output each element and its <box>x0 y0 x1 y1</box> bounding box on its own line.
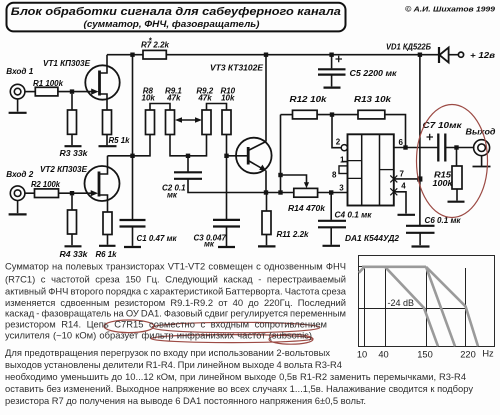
node A junction <box>70 89 74 93</box>
connector XS2 Вход 2 <box>6 170 34 201</box>
svg-text:100k: 100k <box>433 179 454 188</box>
+12 branch vertical wire <box>419 55 421 226</box>
svg-text:DA1 К544УД2: DA1 К544УД2 <box>345 234 400 243</box>
connector XS1 Вход 1 <box>6 67 34 99</box>
svg-text:Сумматор на полевых транзистор: Сумматор на полевых транзисторах VT1-VT2… <box>5 260 346 271</box>
wire node N to VT3 base <box>227 135 249 156</box>
ground (R4) <box>65 245 82 247</box>
svg-text:выходов установлены делители R: выходов установлены делители R1-R4. При … <box>5 359 342 370</box>
pin 4 X mark <box>390 188 397 195</box>
ground (R6) <box>99 245 116 247</box>
ground (output) <box>473 156 491 167</box>
svg-text:оставить без изменений. Выходн: оставить без изменений. Выходное напряже… <box>5 383 473 394</box>
svg-text:резистора R7 до получения на в: резистора R7 до получения на выводе 6 DA… <box>5 395 366 406</box>
wire node X to R8 <box>133 135 151 156</box>
transistor VT3 <box>210 64 272 174</box>
svg-text:47k: 47k <box>166 93 181 102</box>
graph gridline 150Hz <box>426 267 428 346</box>
ground (input 1) <box>9 99 27 113</box>
resistor R1 <box>33 79 64 96</box>
ground (R11) <box>258 245 276 247</box>
wire to R12 <box>281 114 293 116</box>
pin 6 wire to C7 <box>394 147 439 149</box>
wire C2 bootstrap to emitter node <box>188 179 266 193</box>
svg-text:6: 6 <box>399 138 404 147</box>
graph gridline 220Hz <box>465 268 467 347</box>
svg-text:10k: 10k <box>221 93 235 102</box>
resistor R10 <box>220 86 235 134</box>
feedback wire R13 to pin 6 <box>385 115 406 148</box>
svg-text:3: 3 <box>339 183 344 192</box>
wire R2 to VT2 gate <box>59 192 92 194</box>
svg-text:© А.И. Шихатов 1999: © А.И. Шихатов 1999 <box>405 5 496 14</box>
wire R12 to R13 <box>317 114 358 116</box>
wire bracket R9.2-R10 <box>207 104 227 111</box>
svg-text:Вход 2: Вход 2 <box>6 170 34 179</box>
svg-text:R12 10k: R12 10k <box>290 95 328 104</box>
potentiometer R14 <box>288 188 326 213</box>
junction node N <box>224 154 228 158</box>
capacitor C1 <box>120 220 178 246</box>
resistor R6 <box>96 212 118 259</box>
svg-text:2: 2 <box>336 137 341 146</box>
svg-text:7: 7 <box>400 169 405 178</box>
wire VT2 drain to node X <box>108 155 133 157</box>
junction node X / filter input <box>130 154 134 158</box>
capacitor C2 <box>162 156 202 200</box>
resistor R2 <box>31 180 61 198</box>
rail wire R7 to diode <box>166 54 439 56</box>
ground (C6) <box>412 245 430 247</box>
connector Выход <box>466 128 496 156</box>
wiper wire R14 <box>281 175 310 188</box>
svg-text:C7 10мк: C7 10мк <box>423 121 463 130</box>
ground (C5) <box>324 86 341 88</box>
wire VT3 emitter down <box>265 171 267 193</box>
svg-text:изменяется сдвоенным резисторо: изменяется сдвоенным резистором R9.1-R9.… <box>5 297 346 308</box>
pin 2 bubble <box>341 145 347 151</box>
curve flat top <box>362 265 426 268</box>
svg-text:необходимо уменьшить до 10...1: необходимо уменьшить до 10...12 кОм, при… <box>5 371 466 382</box>
svg-text:VT1 КП303Е: VT1 КП303Е <box>43 59 91 68</box>
resistor R9.2 <box>196 86 213 134</box>
wire node M segment <box>170 135 207 156</box>
capacitor C6 <box>406 216 461 245</box>
curve cutoff 150Hz <box>426 267 455 347</box>
resistor R5 <box>103 110 131 145</box>
svg-text:Hz: Hz <box>482 349 494 359</box>
ground (R5) <box>99 145 117 147</box>
pins 1-8 bracket <box>339 166 348 174</box>
diode VD1 <box>386 42 458 63</box>
+12v terminal <box>458 51 495 60</box>
svg-text:(сумматор, ФНЧ, фазовращатель): (сумматор, ФНЧ, фазовращатель) <box>84 19 260 29</box>
wire R1 to VT1 gate <box>58 91 92 93</box>
junction inverting input node <box>330 112 334 116</box>
graph -24dB line <box>359 308 466 310</box>
transistor VT1 <box>43 55 120 110</box>
svg-text:Для предотвращения перегрузок: Для предотвращения перегрузок по входу п… <box>5 347 330 358</box>
curve subsonic rise <box>359 267 365 273</box>
title box <box>7 3 346 32</box>
svg-text:1: 1 <box>340 155 345 164</box>
junction node M / C2 <box>186 154 190 158</box>
ground (pin 4) <box>398 214 416 216</box>
description paragraph 1 <box>5 260 347 340</box>
svg-text:40: 40 <box>378 350 388 360</box>
resistor R7 <box>141 37 170 60</box>
op-amp DA1 <box>345 134 400 243</box>
svg-text:R13 10k: R13 10k <box>354 95 392 104</box>
resistor R4 <box>60 195 89 259</box>
capacitor C3 <box>194 156 241 249</box>
svg-text:R1 100k: R1 100k <box>33 79 64 88</box>
resistor R8 <box>142 86 156 134</box>
ground (C4) <box>323 245 341 247</box>
graph x axis labels <box>357 349 494 360</box>
description paragraph 2 <box>5 347 473 406</box>
resistor R11 <box>262 193 309 246</box>
svg-text:VT3 КТ3102Е: VT3 КТ3102Е <box>210 64 264 73</box>
wire bracket R8-R9.1 <box>150 104 170 111</box>
gang arrow R9.1-R9.2 <box>175 117 202 123</box>
svg-text:4: 4 <box>401 181 406 190</box>
svg-text:R3 33k: R3 33k <box>60 149 89 158</box>
graph gridline 40Hz <box>385 267 387 346</box>
ground (input 2) <box>9 200 27 214</box>
svg-text:VT2 КП303Е: VT2 КП303Е <box>40 165 88 174</box>
curve cutoff 220Hz <box>426 267 478 347</box>
wire emitter node to R14 <box>266 192 294 194</box>
wire C7 to output <box>445 147 474 149</box>
svg-text:C1 0.47 мк: C1 0.47 мк <box>137 234 178 243</box>
wire input1 to R1 <box>25 91 36 93</box>
wire VT3 collector to rail <box>265 55 267 142</box>
junction rail/node X <box>130 53 134 57</box>
red ellipse annotation subsonic <box>269 334 313 344</box>
red ellipse annotation C7R15 (text) <box>104 320 154 333</box>
junction rail/+12 branch <box>418 53 422 57</box>
svg-text:C5 2200 мк: C5 2200 мк <box>350 69 398 78</box>
junction rail/VT3 collector <box>264 53 268 57</box>
svg-text:220: 220 <box>460 350 476 360</box>
graph gridline 10Hz <box>364 268 366 347</box>
svg-text:R11 2.2k: R11 2.2k <box>277 230 310 239</box>
svg-text:мк: мк <box>167 191 178 200</box>
svg-text:-24 dB: -24 dB <box>388 298 415 308</box>
junction R15 <box>454 145 458 149</box>
resistor R3 <box>60 94 89 158</box>
wire R12 branch vertical <box>280 115 282 193</box>
curve cutoff 40Hz <box>385 267 438 347</box>
svg-text:Блок обработки сигнала для саб: Блок обработки сигнала для сабеуферного … <box>11 6 341 18</box>
resistor R13 <box>354 95 392 119</box>
junction pin 7 / +12 branch <box>417 176 422 181</box>
wire R14 to pin3 node <box>318 192 348 194</box>
junction wiper branch <box>278 173 282 177</box>
svg-text:R14 470k: R14 470k <box>288 204 326 213</box>
junction pin 6 / feedback <box>403 145 407 149</box>
capacitor C7 <box>423 121 463 161</box>
svg-text:Выход: Выход <box>466 128 496 137</box>
node B junction <box>70 191 74 195</box>
svg-text:47k: 47k <box>197 93 212 102</box>
svg-text:R5 1k: R5 1k <box>109 136 131 145</box>
junction emitter node <box>264 190 268 194</box>
ground (C1) <box>124 246 141 248</box>
junction rail/C5 <box>329 53 333 57</box>
capacitor C4 <box>318 193 372 245</box>
red ellipse annotation line 6 <box>152 322 320 332</box>
svg-text:активный ФНЧ второго порядка с: активный ФНЧ второго порядка с характери… <box>5 285 347 296</box>
svg-text:резистором R14. Цепь C7R15 сов: резистором R14. Цепь C7R15 совместно с в… <box>5 319 327 330</box>
ground (C3) <box>218 246 235 248</box>
svg-text:10k: 10k <box>142 93 156 102</box>
svg-text:(R7C1) с частотой среза 150 Гц: (R7C1) с частотой среза 150 Гц. Следующи… <box>5 274 346 285</box>
ground (R15) <box>448 201 465 203</box>
graph frame <box>359 256 495 347</box>
ground (R3) <box>65 145 82 147</box>
svg-text:VD1 КД522Б: VD1 КД522Б <box>386 42 431 51</box>
+12V rail wire <box>107 54 143 56</box>
red ellipse annotation (output circuit) <box>417 105 488 218</box>
wire input2 to R2 <box>25 192 35 194</box>
capacitor C5 <box>318 55 398 87</box>
junction emitter line / branch <box>278 190 282 194</box>
svg-text:150: 150 <box>417 350 433 360</box>
pin 4 wire <box>394 192 406 214</box>
resistor R12 <box>290 95 328 119</box>
pin 1 stub <box>342 161 348 163</box>
svg-text:R2 100k: R2 100k <box>31 180 61 189</box>
svg-text:C4 0.1 мк: C4 0.1 мк <box>335 210 373 219</box>
junction pin3 node <box>329 190 333 194</box>
svg-text:R6 1k: R6 1k <box>96 250 118 259</box>
red ellipse annotation line 7 <box>151 335 313 343</box>
pin 7 wire <box>394 178 418 180</box>
svg-text:R7 2.2k: R7 2.2k <box>141 40 170 49</box>
svg-text:Вход 1: Вход 1 <box>6 67 34 76</box>
resistor R9.1 <box>165 86 182 134</box>
svg-text:8: 8 <box>332 170 337 179</box>
svg-text:каскад - фазовращатель на ОУ D: каскад - фазовращатель на ОУ DA1. Фазовы… <box>5 308 346 319</box>
pin 7 X mark <box>390 175 397 182</box>
svg-text:R4 33k: R4 33k <box>60 250 89 259</box>
wire to pin 2 <box>332 115 341 148</box>
node X vertical wire <box>132 55 134 219</box>
svg-text:мк: мк <box>204 240 215 249</box>
svg-text:+ 12в: + 12в <box>470 51 495 60</box>
svg-text:усилителя (~10 кОм) образует ф: усилителя (~10 кОм) образует фильтр инфр… <box>5 329 312 340</box>
svg-text:10: 10 <box>357 350 367 360</box>
transistor VT2 <box>40 156 120 212</box>
resistor R15 <box>433 148 463 201</box>
